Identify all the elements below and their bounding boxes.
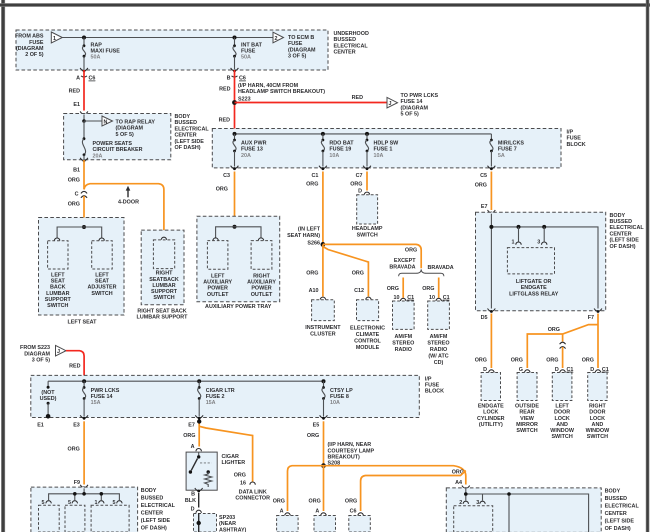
svg-text:FUSE 8: FUSE 8 <box>330 394 349 400</box>
label BODY BUSSED ELECTRICAL CENTER (LEFT SIDE OF DASH) <box>175 114 210 151</box>
wire bus top <box>62 37 273 39</box>
wire RED S223 to arrow <box>235 102 388 104</box>
stub (NOT USED) <box>40 381 57 418</box>
left seat box <box>39 218 125 316</box>
svg-text:BACK: BACK <box>50 285 66 291</box>
svg-text:LEFT SEAT: LEFT SEAT <box>68 320 98 326</box>
svg-text:15A: 15A <box>206 400 216 406</box>
wire ORG E3 to F9 <box>83 421 85 484</box>
svg-text:BLOCK: BLOCK <box>425 389 444 395</box>
wire bus bottom left bbec <box>49 494 120 500</box>
svg-text:HDLP SW: HDLP SW <box>374 141 400 147</box>
body bussed electrical center box (liftgate relay) <box>476 212 606 311</box>
wire ORG S266 to instrument cluster <box>322 244 324 296</box>
i/p fuse block box row 2 <box>31 375 420 417</box>
svg-text:ORG: ORG <box>387 286 399 292</box>
svg-text:RIGHT: RIGHT <box>589 404 606 410</box>
svg-text:S223: S223 <box>238 96 251 102</box>
svg-text:USED): USED) <box>40 396 57 402</box>
svg-text:FUSE: FUSE <box>425 383 440 389</box>
wire ORG to am/fm stereo radio w/atc <box>438 278 440 298</box>
wire relay box left vertical <box>490 214 492 309</box>
svg-text:BUSSED: BUSSED <box>141 495 164 501</box>
svg-text:FUSE 13: FUSE 13 <box>241 147 263 153</box>
svg-text:E3: E3 <box>73 423 80 429</box>
bus wire row1 <box>235 133 492 135</box>
wire ORG connector to left door pin <box>562 347 564 368</box>
svg-text:ORG: ORG <box>352 271 364 277</box>
node junction hdlp sw <box>365 132 369 136</box>
cigar lighter heating element <box>205 470 212 487</box>
node junctions bottom left bbec <box>73 492 77 496</box>
cigar lighter box <box>186 452 245 490</box>
pin 10 / C1 radio atc <box>429 295 450 301</box>
wire RED from S223 arrow <box>66 351 84 379</box>
svg-text:BUSSED: BUSSED <box>175 120 198 126</box>
svg-text:ORG: ORG <box>475 183 487 189</box>
svg-text:F9: F9 <box>74 480 80 486</box>
svg-text:BUSSED: BUSSED <box>605 496 628 502</box>
svg-text:EXCEPT: EXCEPT <box>394 258 416 264</box>
svg-text:TO ECM B: TO ECM B <box>288 35 314 41</box>
svg-text:ORG: ORG <box>273 498 285 504</box>
pin A middle <box>315 509 326 516</box>
svg-text:PWR LCKS: PWR LCKS <box>91 388 120 394</box>
svg-text:D: D <box>191 507 195 513</box>
svg-text:SEAT HARN): SEAT HARN) <box>287 233 320 239</box>
node junction rdo bat <box>321 132 325 136</box>
wire ORG B1 down <box>83 160 85 189</box>
fuse RDO BAT FUSE 19 10A <box>321 134 354 167</box>
wire ORG S208 right branch to A4 <box>324 466 466 485</box>
wire left seat branches <box>57 227 102 239</box>
svg-text:CLUSTER: CLUSTER <box>310 331 336 337</box>
bus wire row2 <box>48 380 323 382</box>
svg-text:3 OF 5): 3 OF 5) <box>32 358 50 364</box>
pin E1 entry <box>73 102 87 116</box>
pin right seatback lumbar switch <box>161 237 166 240</box>
svg-text:OF DASH): OF DASH) <box>141 525 167 531</box>
svg-text:ORG: ORG <box>422 286 434 292</box>
svg-text:SP203: SP203 <box>219 515 235 521</box>
svg-text:OF DASH): OF DASH) <box>175 145 201 151</box>
svg-text:ORG: ORG <box>511 358 523 364</box>
svg-text:LUMBAR: LUMBAR <box>46 291 69 297</box>
window frame right border <box>646 0 650 532</box>
svg-text:FUSE 2: FUSE 2 <box>206 394 225 400</box>
svg-text:DATA LINK: DATA LINK <box>239 489 267 495</box>
headlamp switch box <box>352 195 383 239</box>
wire ORG F7 branch to mirror and left door <box>527 325 598 368</box>
body bussed electrical center box (power seats) <box>64 114 171 160</box>
svg-text:CIRCUIT BREAKER: CIRCUIT BREAKER <box>93 147 143 153</box>
wire ORG branch to right seatback <box>84 184 164 239</box>
electronic climate control module box <box>350 300 385 351</box>
svg-text:B: B <box>227 76 231 82</box>
pin E1 exit <box>37 423 44 429</box>
svg-text:RIGHT: RIGHT <box>156 271 173 277</box>
svg-text:ELECTRICAL: ELECTRICAL <box>610 225 645 231</box>
svg-text:I/P: I/P <box>425 376 432 382</box>
svg-text:ORG: ORG <box>68 178 80 184</box>
right seatback lumbar support box <box>141 230 184 305</box>
svg-text:C: C <box>75 192 79 198</box>
svg-text:3: 3 <box>537 240 540 246</box>
svg-text:RED: RED <box>69 89 80 95</box>
svg-text:A: A <box>315 509 319 515</box>
pin 1 third <box>95 500 105 506</box>
svg-text:FUSE: FUSE <box>567 136 582 142</box>
pin D5 exit <box>481 309 496 321</box>
fuse RAP MAXI FUSE 50A <box>82 38 120 70</box>
svg-text:MIR/LCKS: MIR/LCKS <box>498 141 524 147</box>
pin D endgate lock <box>475 358 494 373</box>
svg-text:ENDGATE: ENDGATE <box>478 404 504 410</box>
svg-text:FUSE: FUSE <box>29 40 44 46</box>
svg-text:20A: 20A <box>241 153 251 159</box>
label I/P FUSE BLOCK row1 <box>567 130 586 148</box>
splice S266 <box>287 227 325 247</box>
svg-text:(UTILITY): (UTILITY) <box>479 422 503 428</box>
svg-text:VIEW: VIEW <box>520 416 535 422</box>
node junction aux tray <box>233 225 237 229</box>
right door lock and window switch box <box>586 373 611 441</box>
pin C7 exit <box>350 166 371 188</box>
svg-text:DOOR: DOOR <box>554 410 570 416</box>
svg-text:BRAVADA: BRAVADA <box>389 264 415 270</box>
svg-text:SWITCH: SWITCH <box>587 434 608 440</box>
pin F9 entry <box>74 480 88 489</box>
svg-text:ORG: ORG <box>350 182 362 188</box>
svg-text:OUTSIDE: OUTSIDE <box>515 404 539 410</box>
endgate lock cylinder box <box>477 373 505 428</box>
am/fm stereo radio box <box>392 301 414 353</box>
svg-text:16: 16 <box>240 481 246 487</box>
svg-text:ORG: ORG <box>306 182 318 188</box>
svg-text:SEAT: SEAT <box>95 279 110 285</box>
svg-text:ORG: ORG <box>582 358 594 364</box>
instrument cluster box <box>305 300 341 338</box>
splice S223 <box>232 83 325 105</box>
inner box bottom right <box>454 506 493 532</box>
node junction RAP <box>82 36 86 40</box>
cigar lighter switch contact <box>189 452 212 474</box>
svg-text:BODY: BODY <box>175 114 191 120</box>
svg-text:MIRROR: MIRROR <box>516 422 538 428</box>
wire ORG F7 down to right door <box>597 314 599 369</box>
svg-text:A: A <box>280 509 284 515</box>
svg-text:C5: C5 <box>480 173 487 179</box>
svg-text:1: 1 <box>53 36 56 42</box>
svg-text:DIAGRAM: DIAGRAM <box>24 351 50 357</box>
outside rear view mirror switch box <box>515 373 539 435</box>
svg-text:SWITCH: SWITCH <box>91 291 112 297</box>
svg-text:WINDOW: WINDOW <box>586 428 611 434</box>
pin A / C6 exit <box>76 68 95 82</box>
wire RED A to E1 <box>83 76 85 111</box>
component box bottom A middle <box>314 516 336 532</box>
svg-text:J: J <box>57 349 60 355</box>
right auxiliary power outlet box <box>247 241 276 298</box>
pin A4 entry <box>455 480 470 490</box>
svg-text:2 OF 5): 2 OF 5) <box>25 52 43 58</box>
svg-text:C1: C1 <box>311 173 318 179</box>
svg-text:MAXI FUSE: MAXI FUSE <box>91 49 121 55</box>
svg-text:50A: 50A <box>91 55 101 61</box>
component box bottom A left <box>277 516 299 532</box>
node junction cigar ltr <box>197 379 201 383</box>
svg-text:HEADLAMP SWITCH BREAKOUT): HEADLAMP SWITCH BREAKOUT) <box>238 89 325 95</box>
splice S208 <box>321 442 374 468</box>
node junctions bottom right bbec <box>464 492 468 496</box>
svg-text:E1: E1 <box>73 102 80 108</box>
svg-text:INT BAT: INT BAT <box>241 43 263 49</box>
left auxiliary power outlet box <box>203 241 232 298</box>
svg-text:RIGHT: RIGHT <box>253 274 270 280</box>
splice SP203 box <box>194 513 247 532</box>
svg-text:AUXILIARY: AUXILIARY <box>203 280 232 286</box>
wire ORG tap to C6 <box>361 471 466 512</box>
svg-text:BUSSED: BUSSED <box>610 219 633 225</box>
wire ORG S266 to radios <box>323 244 421 268</box>
wire ORG D5 to endgate lock <box>490 314 492 369</box>
svg-text:SWITCH: SWITCH <box>357 232 378 238</box>
svg-text:LEFT: LEFT <box>555 404 569 410</box>
svg-text:A: A <box>76 76 80 82</box>
label I/P FUSE BLOCK row2 <box>425 376 444 394</box>
svg-text:CTSY LP: CTSY LP <box>330 388 353 394</box>
svg-text:J: J <box>389 101 392 107</box>
pin D / C1 right door <box>582 358 609 373</box>
svg-text:N: N <box>104 119 108 125</box>
svg-text:1: 1 <box>512 240 515 246</box>
svg-text:C6: C6 <box>350 509 357 515</box>
svg-text:SWITCH: SWITCH <box>551 434 572 440</box>
svg-text:F7: F7 <box>588 315 594 321</box>
svg-text:LEFT: LEFT <box>95 273 109 279</box>
right seatback lumbar support switch box <box>149 240 179 301</box>
fuse CTSY LP FUSE 8 10A <box>322 381 353 416</box>
svg-text:OF DASH): OF DASH) <box>605 526 631 532</box>
wire ORG E7 to cigar lighter <box>198 421 200 446</box>
svg-text:BODY: BODY <box>610 213 626 219</box>
svg-text:(I/P HARN, 40CM FROM: (I/P HARN, 40CM FROM <box>238 83 299 89</box>
svg-text:3 OF 5): 3 OF 5) <box>288 54 306 60</box>
svg-text:ENDGATE: ENDGATE <box>521 285 547 291</box>
wire ORG drop to left door <box>562 334 564 342</box>
svg-text:C3: C3 <box>223 173 230 179</box>
svg-text:OUTLET: OUTLET <box>251 292 273 298</box>
pin E5 exit <box>313 415 328 428</box>
svg-text:ORG: ORG <box>68 202 80 208</box>
inner box bottom left 1 <box>39 505 60 532</box>
svg-text:(NEAR: (NEAR <box>219 521 236 527</box>
svg-text:SWITCH: SWITCH <box>516 428 537 434</box>
svg-text:10A: 10A <box>330 400 340 406</box>
wire relay box bus and right vertical <box>491 227 598 309</box>
pin 10 / C1 radio <box>394 295 415 301</box>
pin B / C6 exit underhood <box>227 68 246 82</box>
svg-text:RED: RED <box>69 364 80 370</box>
wire RED B to S223 <box>234 76 236 131</box>
brace radios <box>399 269 444 276</box>
svg-text:D: D <box>358 189 362 195</box>
wire ORG to left seat <box>83 196 85 227</box>
fuse HDLP SW FUSE 1 10A <box>365 134 399 167</box>
svg-text:C7: C7 <box>356 173 363 179</box>
pin left auxiliary power outlet <box>213 238 218 241</box>
svg-text:LOCK: LOCK <box>590 416 605 422</box>
pin B cigar lighter exit <box>191 488 203 498</box>
fuse INT BAT FUSE 50A <box>233 38 263 70</box>
svg-text:AUXILIARY POWER TRAY: AUXILIARY POWER TRAY <box>205 304 272 310</box>
pin D splice entry <box>191 507 202 513</box>
wire ORG C3 to aux tray <box>234 172 236 227</box>
svg-text:(LEFT SIDE: (LEFT SIDE <box>141 518 171 524</box>
node junction INT BAT <box>233 36 237 40</box>
svg-text:ORG: ORG <box>234 472 246 478</box>
label BODY BUSSED ELECTRICAL CENTER bottom left <box>141 488 176 532</box>
svg-text:ORG: ORG <box>68 447 80 453</box>
left door lock and window switch box <box>550 373 575 441</box>
svg-text:(I/P HARN, NEAR: (I/P HARN, NEAR <box>328 442 372 448</box>
svg-text:3: 3 <box>476 500 479 506</box>
svg-text:10: 10 <box>394 295 400 301</box>
body bussed electrical center box bottom right <box>446 488 601 532</box>
svg-text:BRAVADA: BRAVADA <box>428 265 454 271</box>
pin A cigar lighter <box>191 444 202 451</box>
svg-text:LOCK: LOCK <box>554 416 569 422</box>
node junction to RAP relay <box>82 119 86 123</box>
svg-text:E7: E7 <box>481 204 488 210</box>
wire aux tray branches <box>216 227 261 239</box>
svg-text:AND: AND <box>592 422 604 428</box>
svg-text:ASHTRAY): ASHTRAY) <box>219 527 247 532</box>
svg-text:WINDOW: WINDOW <box>550 428 575 434</box>
svg-text:SWITCH: SWITCH <box>153 295 174 301</box>
svg-text:(DIAGRAM: (DIAGRAM <box>16 46 44 52</box>
svg-text:(DIAGRAM: (DIAGRAM <box>401 105 429 111</box>
4-DOOR arrow <box>118 186 139 206</box>
svg-text:E1: E1 <box>37 423 44 429</box>
pin E3 exit <box>73 415 88 428</box>
svg-text:CIGAR: CIGAR <box>222 454 239 460</box>
svg-text:UNDERHOOD: UNDERHOOD <box>334 31 369 37</box>
wire ORG C1 to S266 <box>322 172 324 245</box>
svg-text:CIGAR LTR: CIGAR LTR <box>206 388 235 394</box>
inline connector C <box>75 191 88 197</box>
node junction left seat <box>82 225 86 229</box>
pin C3 exit <box>216 166 239 193</box>
svg-text:CENTER: CENTER <box>605 511 627 517</box>
pin 3 <box>476 500 485 506</box>
pin D / C1 left door <box>546 358 573 373</box>
svg-text:RED: RED <box>352 95 363 101</box>
svg-text:D5: D5 <box>481 315 488 321</box>
svg-text:C12: C12 <box>354 288 364 294</box>
label BODY BUSSED ELECTRICAL CENTER (LEFT SIDE OF DASH) <box>610 213 645 250</box>
pin G mirror switch <box>511 358 530 373</box>
svg-text:(W/ ATC: (W/ ATC <box>428 353 448 359</box>
svg-text:2: 2 <box>275 36 278 42</box>
svg-text:50A: 50A <box>241 55 251 61</box>
svg-text:FUSE 14: FUSE 14 <box>91 394 113 400</box>
node junction pwr lcks <box>82 379 86 383</box>
svg-text:AUXILIARY: AUXILIARY <box>247 280 276 286</box>
svg-text:CONTROL: CONTROL <box>354 338 381 344</box>
svg-text:BLK: BLK <box>185 498 196 504</box>
wire bus bottom right bbec <box>466 488 589 532</box>
svg-text:A: A <box>191 444 195 450</box>
pin right auxiliary power outlet <box>258 238 263 241</box>
window frame left border <box>1 0 5 532</box>
left seat back lumbar support switch box <box>45 241 72 309</box>
node junction ctsy lp <box>322 379 326 383</box>
svg-text:A10: A10 <box>309 288 319 294</box>
underhood bussed electrical center box <box>16 30 328 70</box>
svg-text:FUSE: FUSE <box>288 41 303 47</box>
svg-text:SUPPORT: SUPPORT <box>45 297 72 303</box>
pin F7 exit <box>588 309 602 321</box>
svg-text:BODY: BODY <box>141 488 157 494</box>
svg-text:ORG: ORG <box>475 358 487 364</box>
svg-text:10: 10 <box>429 295 435 301</box>
svg-text:ELECTRICAL: ELECTRICAL <box>334 43 369 49</box>
svg-text:AUX PWR: AUX PWR <box>241 141 267 147</box>
wire ORG to am/fm stereo radio <box>402 278 404 298</box>
svg-text:CYLINDER: CYLINDER <box>477 416 505 422</box>
svg-text:5A: 5A <box>498 153 505 159</box>
svg-text:AM/FM: AM/FM <box>430 334 448 340</box>
node junction relay pin1 <box>517 225 521 229</box>
svg-text:FROM ABS: FROM ABS <box>15 34 44 40</box>
svg-text:CENTER: CENTER <box>175 133 197 139</box>
svg-text:ORG: ORG <box>546 358 558 364</box>
off-page arrow J FROM S223 <box>20 345 66 363</box>
svg-text:(DIAGRAM: (DIAGRAM <box>288 47 316 53</box>
svg-text:LEFT: LEFT <box>211 274 225 280</box>
svg-text:POWER SEATS: POWER SEATS <box>93 141 133 147</box>
node junction relay pin3 <box>542 225 546 229</box>
wire ORG S208 down <box>323 466 325 511</box>
pin B1 exit <box>73 158 88 174</box>
svg-text:ORG: ORG <box>548 327 560 333</box>
liftgate or endgate liftglass relay box <box>507 248 558 298</box>
svg-text:SEAT: SEAT <box>51 279 66 285</box>
svg-text:TO RAP RELAY: TO RAP RELAY <box>116 120 156 126</box>
svg-text:LUMBAR: LUMBAR <box>152 283 175 289</box>
pin C12 climate control <box>354 288 371 300</box>
svg-text:LIFTGLASS RELAY: LIFTGLASS RELAY <box>509 291 559 297</box>
wire ORG S266 to C12 <box>323 247 369 297</box>
svg-text:ORG: ORG <box>216 187 228 193</box>
pin 3 relay <box>537 227 547 246</box>
svg-text:DOOR: DOOR <box>589 410 605 416</box>
svg-text:FROM S223: FROM S223 <box>20 345 50 351</box>
svg-text:ORG: ORG <box>183 433 195 439</box>
svg-text:RADIO: RADIO <box>395 347 412 353</box>
svg-text:B1: B1 <box>73 168 80 174</box>
svg-text:ELECTRONIC: ELECTRONIC <box>350 325 385 331</box>
pin 1 relay <box>512 227 522 246</box>
wire ORG C5 to E7 <box>490 172 492 211</box>
node junction relay left <box>489 225 493 229</box>
svg-text:RED: RED <box>219 118 230 124</box>
svg-text:10A: 10A <box>374 153 384 159</box>
svg-text:(LEFT SIDE: (LEFT SIDE <box>175 139 205 145</box>
i/p fuse block box row 1 <box>212 129 561 168</box>
svg-text:5 OF 5): 5 OF 5) <box>401 112 419 118</box>
